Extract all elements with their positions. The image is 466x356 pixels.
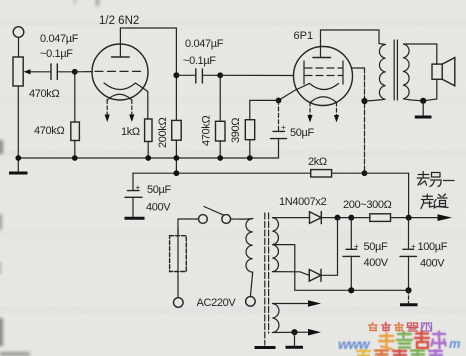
wire grid node to V2 <box>220 74 293 76</box>
resistor R7 200~300Ω <box>370 214 391 222</box>
switch S <box>178 207 253 224</box>
power transformer T1 heater winding <box>273 304 279 333</box>
wire R7 to B+ node <box>391 217 438 219</box>
watermark line1 广电电器网 <box>369 323 432 332</box>
ground rail <box>18 157 278 159</box>
tube V2 screen grid (dashed) <box>305 67 342 69</box>
junction dots on ground rail <box>15 155 21 161</box>
tube V1 cathode <box>104 83 148 119</box>
wire R1 to ground rail <box>74 141 76 159</box>
rectified line to R7 <box>321 217 370 219</box>
resistor R5 390Ω <box>245 120 254 140</box>
output transformer T2 secondary <box>403 44 437 101</box>
fuse FU <box>170 219 187 298</box>
resistor R2 1kΩ <box>145 119 152 142</box>
label 去另一 (fake hanzi strokes) <box>417 172 454 187</box>
node speaker/secondary ground <box>420 98 426 104</box>
B+ line (2kΩ feed) <box>133 173 409 217</box>
node plate V1 <box>173 72 179 78</box>
capacitor C4 50µF 400V (preamp filter) <box>125 173 145 218</box>
wire V2 cathode node line <box>250 99 279 101</box>
power transformer T1 core <box>265 213 269 345</box>
wire node down to R4 <box>219 75 221 121</box>
capacitor C5 50µF 400V <box>343 218 360 291</box>
AC terminal bottom (primary) <box>246 297 256 307</box>
wire V1 plate top run <box>120 28 176 120</box>
tube V1 heater <box>105 94 135 122</box>
node C5 top <box>348 215 354 221</box>
wire HV top tap to D1 <box>273 217 310 219</box>
ground symbol PSU <box>400 290 418 305</box>
wire V2 screen to B+ column <box>352 67 365 69</box>
power transformer T1 primary <box>246 219 253 297</box>
tube V2 cathode <box>279 84 339 101</box>
tube V2 plate <box>313 30 331 58</box>
tube V2 heater <box>307 97 339 123</box>
tube V1 grid (dashed) <box>95 70 142 72</box>
AC terminal (fused side) <box>174 298 184 308</box>
capacitor C2 coupling 0.047~0.1µF <box>176 69 220 83</box>
wire B+ column x=364.5 <box>364 68 366 173</box>
wire node to V1 grid <box>75 71 93 73</box>
node A (grid V1) <box>72 69 78 75</box>
wire HV center tap <box>273 245 295 291</box>
ground symbol heater <box>286 332 304 347</box>
ground symbol left <box>9 158 28 173</box>
wire HV bottom tap to D2 <box>273 272 310 276</box>
diode D2 1N4007 <box>309 218 337 282</box>
node grid V2 <box>217 72 223 78</box>
scan smudges <box>0 0 99 356</box>
resistor R6 2kΩ <box>311 170 332 177</box>
node B+ main <box>406 215 412 221</box>
tube V1 1/2 6N2 envelope <box>92 44 148 100</box>
tube V2 beam plates <box>304 61 343 84</box>
capacitor C6 100µF 400V <box>400 218 417 291</box>
watermark line3 bottom row <box>357 350 442 356</box>
node heater ground <box>291 329 297 335</box>
output transformer T2 primary <box>365 44 386 102</box>
PSU ground rail <box>295 289 409 291</box>
wire heater top tap arrow <box>273 300 322 307</box>
wire wiper to C1 <box>36 71 50 73</box>
wire heater bottom tap arrow <box>273 329 322 336</box>
output transformer T2 core <box>394 40 397 100</box>
watermark line2 www + big chars <box>338 331 461 352</box>
input jack J1 <box>13 27 24 57</box>
ground symbol speaker <box>415 101 432 117</box>
resistor R1 470kΩ <box>71 122 80 141</box>
resistor R4 470kΩ <box>216 121 226 141</box>
wire R2 to ground rail <box>147 142 149 159</box>
resistor R3 200kΩ <box>172 120 182 140</box>
wire node down to R1 <box>74 72 76 122</box>
wire pot bottom to ground rail <box>17 86 19 158</box>
wire down to R5 <box>249 100 251 119</box>
node D2 join <box>335 215 341 221</box>
ground symbol T1 core <box>255 346 276 349</box>
wire R5 to ground rail <box>249 140 251 158</box>
node C6 bottom <box>405 287 411 293</box>
diode D1 1N4007 <box>310 212 322 224</box>
wire R3 bottom through rail to B+ line <box>175 140 177 173</box>
arrow to other channel <box>438 214 453 221</box>
wire V2 plate top run to OPT <box>321 30 380 44</box>
power transformer T1 HV secondary <box>273 218 279 272</box>
node cathode V2 <box>276 98 282 104</box>
tube V1 plate <box>112 28 130 57</box>
potentiometer RP 470kΩ <box>13 57 36 86</box>
tube V2 6P1 envelope <box>294 47 353 106</box>
wire R4 to ground rail <box>219 141 221 158</box>
capacitor C3 50µF bypass <box>271 100 287 158</box>
tube V2 control grid (dashed) <box>305 75 342 77</box>
label 声道 (fake hanzi strokes) <box>421 194 448 209</box>
node C5 bottom <box>348 287 354 293</box>
node screen/B+ <box>362 170 368 176</box>
speaker LS <box>423 44 455 101</box>
node OPT primary bottom <box>361 98 367 104</box>
node R3/B+ <box>174 170 180 176</box>
capacitor C1 0.047~0.1µF <box>51 64 75 80</box>
